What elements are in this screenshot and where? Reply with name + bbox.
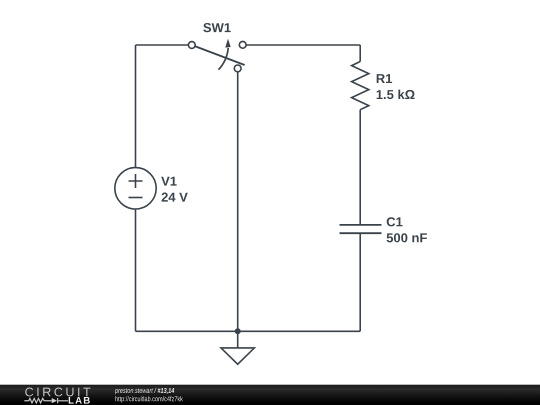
wire switch pole to bottom rail <box>237 72 239 332</box>
label C1 value <box>387 233 427 242</box>
junction node <box>235 328 241 334</box>
wire left rail lower <box>135 209 137 331</box>
logo LAB <box>69 397 90 404</box>
V1 plus sign <box>129 174 143 188</box>
switch SW1 terminal left <box>188 42 195 49</box>
switch SW1 terminal right <box>239 41 246 48</box>
resistor R1 <box>352 62 369 110</box>
label V1 value <box>162 193 188 202</box>
capacitor C1 <box>340 225 382 233</box>
label R1 value <box>377 90 415 100</box>
voltage source V1 <box>115 168 156 209</box>
switch SW1 terminal pole <box>234 65 241 72</box>
logo diode triangle <box>52 398 57 403</box>
wire top-right rail <box>246 44 360 46</box>
footer bar <box>0 385 540 405</box>
logo CIRCUIT <box>25 388 90 397</box>
logo zigzag and diode <box>24 398 68 403</box>
label V1 <box>161 177 176 186</box>
wire left rail upper <box>135 45 137 168</box>
switch SW1 lever <box>192 45 245 65</box>
ground triangle <box>221 348 254 364</box>
wire top-left rail <box>136 44 189 46</box>
label SW1 <box>203 23 230 32</box>
wire right rail middle <box>359 110 361 225</box>
label R1 <box>377 74 392 83</box>
footer line 1 <box>115 388 174 395</box>
V1 minus sign <box>129 197 143 199</box>
wire bottom rail <box>136 330 361 332</box>
wire right rail lower <box>359 233 361 331</box>
switch SW1 actuation arc <box>219 48 229 70</box>
ground stem <box>237 331 239 348</box>
switch SW1 arrowhead <box>225 39 231 48</box>
wire right rail upper <box>359 45 361 62</box>
footer line 2 <box>115 396 182 403</box>
label C1 <box>387 217 403 226</box>
